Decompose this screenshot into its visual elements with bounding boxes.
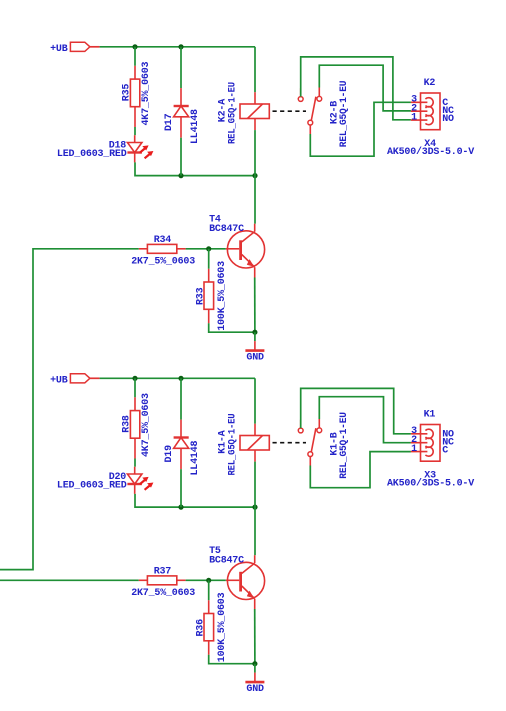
- resistor R37: [131, 567, 195, 599]
- svg-text:K2: K2: [424, 78, 436, 89]
- svg-text:R34: R34: [154, 235, 172, 246]
- junction top rail / D17: [178, 44, 183, 49]
- svg-text:R38: R38: [121, 415, 132, 433]
- junction lower rail / D19: [178, 505, 183, 510]
- wire K1-B NO contact to X3 pin3: [301, 388, 411, 433]
- wire relay K1-A top: [254, 378, 256, 423]
- svg-text:LED_0603_RED: LED_0603_RED: [57, 481, 127, 492]
- svg-text:REL_G5Q-1-EU: REL_G5Q-1-EU: [228, 413, 239, 475]
- wire R37 left to page edge: [0, 579, 139, 581]
- diode D19: [164, 420, 201, 476]
- svg-text:GND: GND: [246, 353, 264, 364]
- svg-text:+UB: +UB: [50, 44, 68, 55]
- wire D17 top: [180, 47, 182, 88]
- relay contact K1-B: [298, 412, 350, 479]
- dashed link K2-A to K2-B: [273, 110, 307, 112]
- svg-text:NO: NO: [442, 114, 454, 125]
- transistor T5: [209, 546, 265, 609]
- relay contact K2-B: [298, 81, 350, 148]
- svg-text:K1: K1: [424, 409, 436, 420]
- wire R36 bottom to emitter rail: [209, 655, 255, 664]
- resistor R34: [131, 235, 195, 267]
- wire base T5 from R37: [186, 579, 226, 581]
- svg-text:1: 1: [411, 444, 417, 455]
- junction base node / R36: [206, 578, 211, 583]
- dashed link K1-A to K1-B: [273, 442, 307, 444]
- svg-text:R37: R37: [154, 567, 172, 578]
- svg-text:REL_G5Q-1-EU: REL_G5Q-1-EU: [339, 412, 350, 479]
- wire relay K1-A bottom: [254, 462, 256, 508]
- wire D19 top: [180, 378, 182, 419]
- svg-text:BC847C: BC847C: [209, 556, 244, 567]
- junction lower rail / relay: [252, 173, 257, 178]
- wire to GND (top): [254, 332, 256, 341]
- wire K1-B common to X3 pin1: [310, 452, 411, 488]
- resistor R33: [195, 261, 228, 331]
- wire +UB top rail: [100, 46, 255, 48]
- junction base node / R33: [206, 246, 211, 251]
- wire +UB bottom rail: [100, 377, 255, 379]
- svg-text:R35: R35: [121, 84, 132, 102]
- junction lower rail / relay K1-A: [252, 505, 257, 510]
- svg-text:R33: R33: [195, 287, 206, 305]
- connector X3: [411, 425, 440, 462]
- wire K1-B NC contact to X3 pin2: [319, 397, 411, 443]
- relay coil K1-A: [217, 413, 269, 475]
- wire R34 left to page edge: [0, 249, 139, 570]
- connector X4: [411, 93, 440, 130]
- svg-text:C: C: [442, 446, 448, 457]
- wire D19 bottom: [180, 469, 182, 507]
- wire K2-B NO contact to X4 pin1: [301, 57, 411, 120]
- svg-text:LL4148: LL4148: [190, 109, 201, 144]
- wire R35 top: [134, 47, 136, 66]
- svg-text:2K7_5%_0603: 2K7_5%_0603: [131, 588, 195, 599]
- wire to GND (bottom): [254, 664, 256, 673]
- svg-text:+UB: +UB: [50, 375, 68, 386]
- resistor R36: [195, 592, 228, 662]
- svg-text:LL4148: LL4148: [190, 440, 201, 475]
- junction emitter/GND (bottom): [252, 661, 257, 666]
- wire R33 top: [208, 249, 210, 269]
- wire D17 bottom: [180, 138, 182, 176]
- svg-text:4K7_5%_0603: 4K7_5%_0603: [141, 393, 152, 457]
- svg-text:REL_G5Q-1-EU: REL_G5Q-1-EU: [339, 81, 350, 148]
- ground GND (top): [245, 341, 264, 364]
- LED D18: [57, 135, 153, 162]
- LED D20: [57, 467, 153, 494]
- svg-text:1: 1: [411, 112, 417, 123]
- svg-text:LED_0603_RED: LED_0603_RED: [57, 149, 127, 160]
- junction emitter/GND: [252, 330, 257, 335]
- resistor R38: [121, 393, 152, 459]
- svg-text:AK500/3DS-5.0-V: AK500/3DS-5.0-V: [387, 478, 474, 490]
- transistor T4: [209, 215, 265, 278]
- wire emitter T4 down: [254, 278, 256, 333]
- wire R38-D20: [134, 459, 136, 467]
- svg-text:REL_G5Q-1-EU: REL_G5Q-1-EU: [228, 82, 239, 144]
- wire K2-B common to X4 pin3: [310, 102, 411, 156]
- junction bottom rail / R38: [132, 376, 137, 381]
- wire R35-D18: [134, 127, 136, 135]
- svg-text:AK500/3DS-5.0-V: AK500/3DS-5.0-V: [387, 146, 474, 158]
- svg-text:R36: R36: [195, 619, 206, 637]
- wire collector T4: [254, 176, 256, 224]
- svg-text:BC847C: BC847C: [209, 224, 244, 235]
- wire collector T5: [254, 507, 256, 555]
- wire R38 top: [134, 378, 136, 397]
- supply +UB (top): [50, 42, 100, 55]
- resistor R35: [121, 61, 152, 127]
- svg-text:100K_5%_0603: 100K_5%_0603: [217, 592, 228, 662]
- diode D17: [164, 88, 201, 144]
- svg-text:100K_5%_0603: 100K_5%_0603: [217, 261, 228, 331]
- svg-text:D19: D19: [164, 445, 175, 463]
- relay coil K2-A: [217, 82, 269, 144]
- wire D20 bottom to lower rail: [135, 494, 255, 507]
- svg-text:4K7_5%_0603: 4K7_5%_0603: [141, 61, 152, 125]
- svg-text:GND: GND: [246, 684, 264, 695]
- junction top rail / R35: [132, 44, 137, 49]
- junction bottom rail / D19: [178, 376, 183, 381]
- wire relay K2-A top: [254, 47, 256, 92]
- svg-text:2K7_5%_0603: 2K7_5%_0603: [131, 256, 195, 267]
- svg-text:D17: D17: [164, 113, 175, 131]
- wire R33 bottom to emitter rail: [209, 323, 255, 332]
- junction lower rail / D17: [178, 173, 183, 178]
- wire emitter T5 down: [254, 609, 256, 664]
- wire relay K2-A bottom: [254, 130, 256, 176]
- wire base T4 from R34: [186, 248, 226, 250]
- ground GND (bottom): [245, 673, 264, 696]
- supply +UB (bottom): [50, 374, 100, 387]
- wire K2-B NC contact to X4 pin2: [319, 65, 411, 111]
- wire R36 top: [208, 580, 210, 600]
- wire D18 bottom to lower rail: [135, 162, 255, 175]
